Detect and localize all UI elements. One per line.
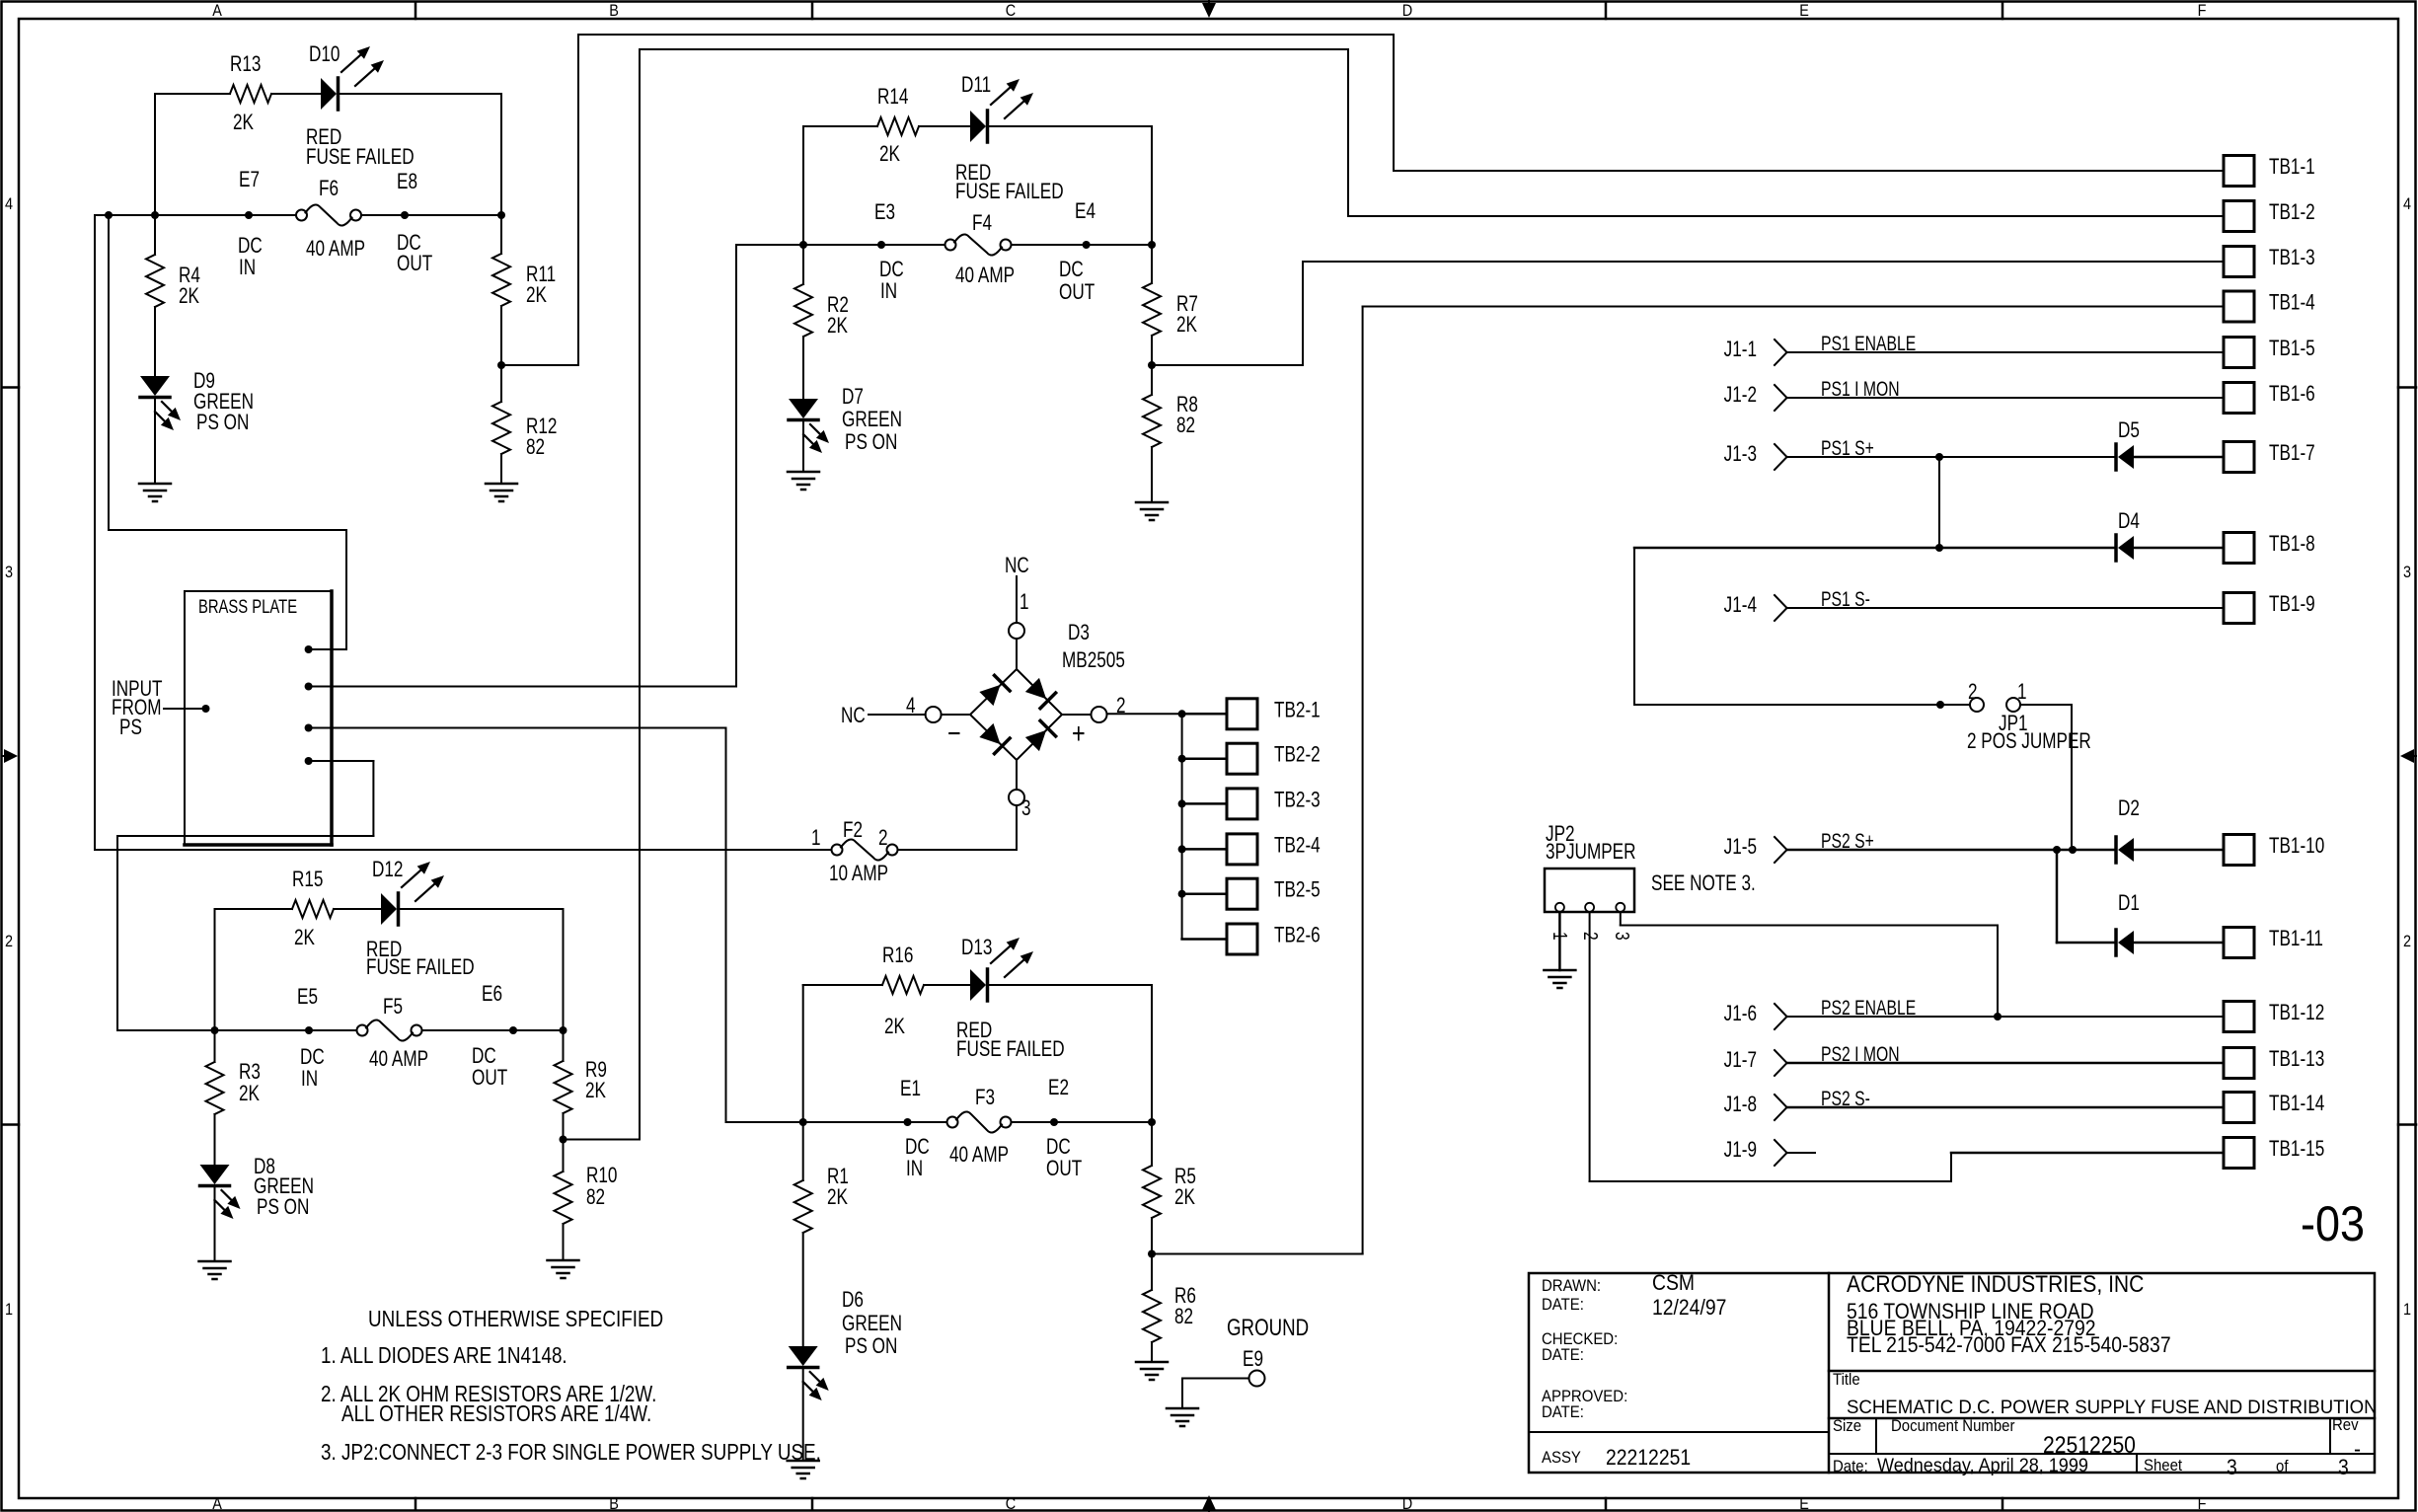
svg-text:2K: 2K xyxy=(1176,313,1197,338)
svg-text:PS2 I MON: PS2 I MON xyxy=(1821,1042,1900,1066)
svg-text:R13: R13 xyxy=(230,52,261,77)
svg-text:4: 4 xyxy=(2403,195,2411,213)
svg-text:PS ON: PS ON xyxy=(257,1195,309,1220)
svg-text:TB1-12: TB1-12 xyxy=(2269,1001,2324,1025)
svg-text:2K: 2K xyxy=(879,142,900,167)
svg-text:FUSE FAILED: FUSE FAILED xyxy=(306,145,415,170)
svg-text:E3: E3 xyxy=(874,200,895,225)
svg-text:Size: Size xyxy=(1833,1417,1861,1435)
svg-text:NC: NC xyxy=(1005,554,1029,578)
svg-text:82: 82 xyxy=(526,435,545,460)
svg-text:SEE NOTE 3.: SEE NOTE 3. xyxy=(1651,871,1756,896)
svg-text:F5: F5 xyxy=(383,995,403,1020)
svg-text:F4: F4 xyxy=(972,211,992,236)
svg-text:TB2-1: TB2-1 xyxy=(1274,698,1321,722)
svg-text:D: D xyxy=(1402,2,1412,20)
svg-text:CSM: CSM xyxy=(1652,1271,1695,1295)
svg-text:E9: E9 xyxy=(1243,1347,1263,1372)
svg-text:2K: 2K xyxy=(884,1015,905,1039)
svg-text:TB1-11: TB1-11 xyxy=(2269,927,2323,951)
svg-text:3: 3 xyxy=(2338,1456,2349,1479)
svg-text:J1-4: J1-4 xyxy=(1724,593,1757,618)
svg-text:NC: NC xyxy=(841,704,866,728)
svg-text:E4: E4 xyxy=(1075,199,1096,224)
svg-text:40 AMP: 40 AMP xyxy=(955,264,1015,288)
svg-text:82: 82 xyxy=(1176,414,1195,438)
svg-text:2K: 2K xyxy=(1174,1185,1195,1210)
svg-text:12/24/97: 12/24/97 xyxy=(1652,1296,1726,1320)
svg-text:B: B xyxy=(609,2,619,20)
svg-text:DATE:: DATE: xyxy=(1542,1346,1584,1364)
svg-text:ALL OTHER RESISTORS ARE 1/4W.: ALL OTHER RESISTORS ARE 1/4W. xyxy=(341,1401,651,1426)
svg-text:DC: DC xyxy=(300,1045,325,1070)
svg-text:J1-3: J1-3 xyxy=(1724,442,1757,467)
svg-text:D4: D4 xyxy=(2118,509,2140,534)
svg-text:TB1-3: TB1-3 xyxy=(2269,246,2315,270)
svg-text:Sheet: Sheet xyxy=(2144,1457,2183,1474)
svg-text:OUT: OUT xyxy=(397,252,432,276)
svg-text:D1: D1 xyxy=(2118,891,2140,916)
svg-text:F2: F2 xyxy=(843,818,863,843)
svg-text:PS1 S-: PS1 S- xyxy=(1821,587,1870,611)
svg-text:TB1-15: TB1-15 xyxy=(2269,1137,2324,1162)
svg-text:D11: D11 xyxy=(961,73,991,98)
svg-text:2K: 2K xyxy=(526,283,547,308)
svg-text:2: 2 xyxy=(1968,680,1978,705)
svg-text:2K: 2K xyxy=(827,314,848,339)
svg-text:IN: IN xyxy=(239,256,256,280)
svg-text:F: F xyxy=(2198,2,2207,20)
svg-text:4: 4 xyxy=(5,195,13,213)
svg-text:D: D xyxy=(1402,1495,1412,1512)
svg-text:E7: E7 xyxy=(239,168,260,192)
svg-text:TEL 215-542-7000 FAX 215-540-5: TEL 215-542-7000 FAX 215-540-5837 xyxy=(1847,1333,2171,1357)
svg-text:TB1-4: TB1-4 xyxy=(2269,291,2315,316)
svg-text:TB2-2: TB2-2 xyxy=(1274,743,1321,768)
svg-text:TB1-1: TB1-1 xyxy=(2269,155,2315,180)
svg-text:R3: R3 xyxy=(239,1060,261,1085)
svg-text:FUSE FAILED: FUSE FAILED xyxy=(955,180,1064,204)
svg-text:2: 2 xyxy=(2403,933,2411,950)
svg-text:D12: D12 xyxy=(372,858,403,882)
svg-text:DATE:: DATE: xyxy=(1542,1296,1584,1314)
svg-text:TB1-2: TB1-2 xyxy=(2269,200,2315,225)
svg-text:TB2-3: TB2-3 xyxy=(1274,788,1321,812)
svg-text:D3: D3 xyxy=(1068,621,1090,645)
svg-text:Title: Title xyxy=(1833,1371,1860,1389)
svg-text:R16: R16 xyxy=(882,944,913,968)
svg-text:B: B xyxy=(609,1495,619,1512)
svg-text:PS1 I MON: PS1 I MON xyxy=(1821,377,1900,401)
svg-text:J1-9: J1-9 xyxy=(1724,1138,1757,1163)
svg-text:ASSY: ASSY xyxy=(1542,1449,1581,1467)
svg-text:2: 2 xyxy=(1116,694,1126,718)
svg-text:4: 4 xyxy=(906,694,916,718)
svg-text:Document Number: Document Number xyxy=(1891,1417,2015,1435)
svg-text:TB2-5: TB2-5 xyxy=(1274,878,1321,903)
svg-text:3: 3 xyxy=(1612,932,1633,941)
svg-text:DATE:: DATE: xyxy=(1542,1403,1584,1421)
svg-text:OUT: OUT xyxy=(1059,280,1095,305)
svg-text:F3: F3 xyxy=(975,1086,995,1110)
svg-text:J1-8: J1-8 xyxy=(1724,1093,1757,1117)
svg-text:ACRODYNE INDUSTRIES, INC: ACRODYNE INDUSTRIES, INC xyxy=(1847,1271,2144,1298)
svg-text:F: F xyxy=(2198,1495,2207,1512)
svg-text:TB1-10: TB1-10 xyxy=(2269,834,2324,859)
svg-text:IN: IN xyxy=(880,279,897,304)
svg-text:DRAWN:: DRAWN: xyxy=(1542,1277,1601,1295)
svg-text:2K: 2K xyxy=(239,1082,260,1106)
svg-text:E: E xyxy=(1799,2,1809,20)
svg-text:SCHEMATIC D.C. POWER SUPPLY FU: SCHEMATIC D.C. POWER SUPPLY FUSE AND DIS… xyxy=(1847,1397,2378,1417)
svg-text:D5: D5 xyxy=(2118,418,2140,443)
svg-text:DC: DC xyxy=(472,1044,496,1069)
svg-text:2K: 2K xyxy=(179,284,199,309)
svg-text:UNLESS OTHERWISE SPECIFIED: UNLESS OTHERWISE SPECIFIED xyxy=(368,1307,663,1331)
svg-text:PS2 S-: PS2 S- xyxy=(1821,1087,1870,1110)
svg-text:2: 2 xyxy=(5,933,13,950)
svg-text:Wednesday, April 28, 1999: Wednesday, April 28, 1999 xyxy=(1877,1455,2088,1476)
svg-text:10 AMP: 10 AMP xyxy=(829,862,888,886)
svg-text:J1-5: J1-5 xyxy=(1724,835,1757,860)
svg-text:-: - xyxy=(2354,1436,2361,1463)
svg-text:2: 2 xyxy=(878,826,888,851)
svg-text:DC: DC xyxy=(1046,1135,1071,1160)
svg-text:−: − xyxy=(947,717,961,749)
svg-text:PS ON: PS ON xyxy=(845,430,897,455)
svg-text:D10: D10 xyxy=(309,42,340,67)
svg-text:PS ON: PS ON xyxy=(196,411,249,435)
svg-text:PS1 S+: PS1 S+ xyxy=(1821,436,1874,460)
svg-text:2 POS JUMPER: 2 POS JUMPER xyxy=(1967,729,2091,754)
svg-text:82: 82 xyxy=(586,1185,605,1210)
svg-text:PS: PS xyxy=(119,716,142,740)
svg-text:C: C xyxy=(1006,2,1016,20)
svg-text:DC: DC xyxy=(1059,258,1084,282)
svg-text:PS2 ENABLE: PS2 ENABLE xyxy=(1821,996,1916,1020)
svg-text:R15: R15 xyxy=(292,868,323,892)
svg-text:3. JP2:CONNECT 2-3 FOR SINGLE: 3. JP2:CONNECT 2-3 FOR SINGLE POWER SUPP… xyxy=(321,1440,821,1465)
svg-text:2K: 2K xyxy=(585,1079,606,1103)
svg-text:PS ON: PS ON xyxy=(845,1334,897,1359)
svg-text:E2: E2 xyxy=(1048,1076,1069,1100)
svg-text:GREEN: GREEN xyxy=(842,408,902,432)
svg-text:PS2 S+: PS2 S+ xyxy=(1821,829,1874,853)
svg-text:40 AMP: 40 AMP xyxy=(306,237,365,262)
svg-text:E8: E8 xyxy=(397,170,417,194)
svg-text:2K: 2K xyxy=(294,926,315,950)
svg-text:OUT: OUT xyxy=(1046,1157,1082,1181)
svg-text:FUSE FAILED: FUSE FAILED xyxy=(366,955,475,980)
svg-text:FUSE FAILED: FUSE FAILED xyxy=(956,1037,1065,1062)
svg-text:40 AMP: 40 AMP xyxy=(949,1143,1009,1168)
svg-text:A: A xyxy=(212,1495,222,1512)
svg-text:1: 1 xyxy=(811,826,821,851)
svg-text:82: 82 xyxy=(1174,1305,1193,1329)
svg-text:D6: D6 xyxy=(842,1288,864,1313)
svg-text:1: 1 xyxy=(5,1301,13,1319)
svg-text:TB1-6: TB1-6 xyxy=(2269,382,2315,407)
svg-text:J1-7: J1-7 xyxy=(1724,1048,1757,1073)
svg-text:3: 3 xyxy=(2227,1456,2237,1479)
svg-text:J1-1: J1-1 xyxy=(1724,338,1757,362)
svg-text:TB1-5: TB1-5 xyxy=(2269,337,2315,361)
svg-text:1: 1 xyxy=(2403,1301,2411,1319)
svg-text:MB2505: MB2505 xyxy=(1062,648,1125,673)
svg-text:PS1 ENABLE: PS1 ENABLE xyxy=(1821,332,1916,355)
svg-text:OUT: OUT xyxy=(472,1066,507,1091)
svg-text:E1: E1 xyxy=(900,1077,921,1101)
svg-text:+: + xyxy=(1072,717,1086,749)
svg-text:E: E xyxy=(1799,1495,1809,1512)
svg-text:TB2-4: TB2-4 xyxy=(1274,833,1321,858)
svg-text:E6: E6 xyxy=(482,982,502,1007)
svg-text:Rev: Rev xyxy=(2332,1416,2359,1434)
svg-text:TB1-8: TB1-8 xyxy=(2269,532,2315,557)
svg-text:1: 1 xyxy=(1020,590,1029,615)
svg-text:TB1-13: TB1-13 xyxy=(2269,1047,2324,1072)
svg-text:GREEN: GREEN xyxy=(842,1312,902,1336)
svg-text:R14: R14 xyxy=(877,85,908,110)
svg-text:1. ALL DIODES ARE 1N4148.: 1. ALL DIODES ARE 1N4148. xyxy=(321,1343,567,1368)
svg-text:A: A xyxy=(212,2,222,20)
svg-text:DC: DC xyxy=(879,258,904,282)
svg-text:E5: E5 xyxy=(297,985,318,1010)
svg-text:3PJUMPER: 3PJUMPER xyxy=(1546,840,1636,865)
svg-text:1: 1 xyxy=(1549,932,1571,941)
svg-text:40 AMP: 40 AMP xyxy=(369,1047,428,1072)
svg-text:R10: R10 xyxy=(586,1164,617,1188)
svg-text:Date:: Date: xyxy=(1833,1458,1868,1475)
svg-text:3: 3 xyxy=(2403,564,2411,581)
svg-text:IN: IN xyxy=(906,1157,923,1181)
svg-text:2K: 2K xyxy=(233,111,254,135)
svg-text:D13: D13 xyxy=(961,936,992,960)
svg-text:F6: F6 xyxy=(319,177,339,201)
svg-text:J1-6: J1-6 xyxy=(1724,1002,1757,1026)
svg-text:3: 3 xyxy=(1021,796,1031,821)
svg-text:TB2-6: TB2-6 xyxy=(1274,924,1321,948)
svg-text:DC: DC xyxy=(238,234,263,259)
svg-text:of: of xyxy=(2276,1458,2289,1475)
svg-text:-03: -03 xyxy=(2301,1197,2365,1252)
svg-text:2: 2 xyxy=(1580,932,1602,941)
svg-text:3: 3 xyxy=(5,564,13,581)
svg-text:D7: D7 xyxy=(842,385,864,410)
svg-text:TB1-9: TB1-9 xyxy=(2269,592,2315,617)
svg-text:J1-2: J1-2 xyxy=(1724,383,1757,408)
svg-text:DC: DC xyxy=(905,1135,930,1160)
svg-text:TB1-14: TB1-14 xyxy=(2269,1092,2324,1116)
svg-text:TB1-7: TB1-7 xyxy=(2269,441,2315,466)
svg-text:1: 1 xyxy=(2017,680,2027,705)
svg-text:D2: D2 xyxy=(2118,796,2140,821)
svg-text:BRASS PLATE: BRASS PLATE xyxy=(198,596,297,617)
svg-text:2K: 2K xyxy=(827,1185,848,1210)
svg-text:C: C xyxy=(1006,1495,1016,1512)
svg-text:GROUND: GROUND xyxy=(1227,1315,1309,1341)
svg-text:IN: IN xyxy=(301,1067,318,1092)
svg-text:22212251: 22212251 xyxy=(1606,1446,1691,1470)
